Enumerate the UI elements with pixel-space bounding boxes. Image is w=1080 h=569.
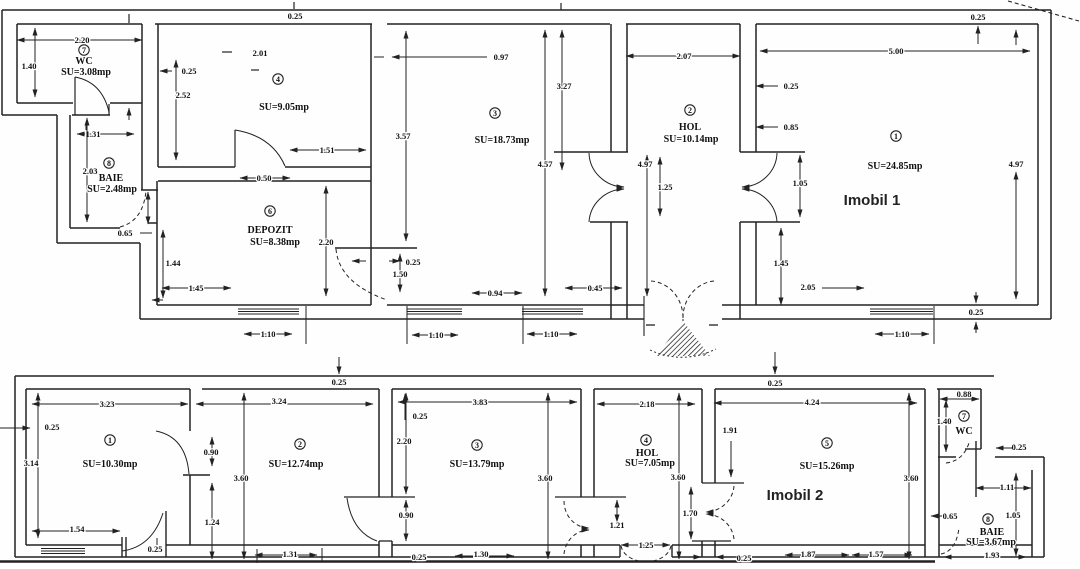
svg-text:3.23: 3.23	[100, 399, 115, 409]
svg-text:1.24: 1.24	[205, 517, 221, 527]
svg-text:1.93: 1.93	[985, 550, 1000, 560]
svg-text:1.50: 1.50	[393, 269, 408, 279]
svg-text:BAIE: BAIE	[99, 173, 124, 184]
svg-text:1.05: 1.05	[793, 178, 808, 188]
svg-text:7: 7	[82, 46, 86, 55]
svg-text:1.05: 1.05	[1006, 510, 1021, 520]
svg-text:0.88: 0.88	[957, 389, 972, 399]
svg-text:0.65: 0.65	[118, 228, 133, 238]
svg-text:3: 3	[475, 441, 479, 450]
svg-text:3.14: 3.14	[24, 458, 40, 468]
svg-text:7: 7	[962, 412, 966, 421]
svg-text:2.01: 2.01	[253, 48, 268, 58]
svg-text:1.54: 1.54	[70, 524, 86, 534]
svg-text:1.51: 1.51	[320, 145, 335, 155]
svg-text:1.45: 1.45	[189, 283, 204, 293]
svg-text:3: 3	[493, 109, 497, 118]
svg-text:0.25: 0.25	[971, 12, 986, 22]
svg-text:0.85: 0.85	[784, 122, 799, 132]
svg-text:Imobil 1: Imobil 1	[844, 192, 901, 209]
svg-text:5.00: 5.00	[889, 46, 904, 56]
svg-text:8: 8	[986, 515, 990, 524]
svg-text:3.60: 3.60	[538, 473, 553, 483]
svg-text:1.70: 1.70	[683, 508, 698, 518]
svg-text:3.60: 3.60	[234, 473, 249, 483]
svg-text:0.90: 0.90	[204, 447, 219, 457]
svg-text:2.05: 2.05	[801, 282, 816, 292]
svg-text:1.91: 1.91	[723, 425, 738, 435]
svg-text:0.94: 0.94	[488, 288, 504, 298]
svg-text:4.24: 4.24	[805, 397, 821, 407]
svg-text:6: 6	[268, 207, 272, 216]
svg-text:0.25: 0.25	[768, 378, 783, 388]
svg-text:4.57: 4.57	[538, 159, 554, 169]
svg-text:1.10: 1.10	[544, 329, 559, 339]
svg-text:SU=13.79mp: SU=13.79mp	[450, 459, 505, 470]
svg-text:SU=10.14mp: SU=10.14mp	[664, 134, 719, 145]
svg-text:SU=8.38mp: SU=8.38mp	[250, 237, 300, 248]
svg-text:0.25: 0.25	[288, 11, 303, 21]
svg-text:0.25: 0.25	[182, 66, 197, 76]
svg-text:1.31: 1.31	[283, 549, 298, 559]
svg-text:SU=10.30mp: SU=10.30mp	[83, 459, 138, 470]
svg-text:3.27: 3.27	[557, 81, 573, 91]
svg-text:1.11: 1.11	[1000, 482, 1014, 492]
svg-text:3.24: 3.24	[272, 396, 288, 406]
svg-text:1.25: 1.25	[639, 540, 654, 550]
svg-text:SU=12.74mp: SU=12.74mp	[269, 459, 324, 470]
svg-text:1.44: 1.44	[166, 258, 182, 268]
svg-text:0.25: 0.25	[148, 544, 163, 554]
svg-text:SU=3.08mp: SU=3.08mp	[61, 67, 111, 78]
svg-text:2.52: 2.52	[176, 90, 191, 100]
svg-text:1.31: 1.31	[86, 129, 101, 139]
svg-text:0.25: 0.25	[1012, 442, 1027, 452]
svg-text:SU=18.73mp: SU=18.73mp	[475, 135, 530, 146]
svg-text:3.60: 3.60	[904, 473, 919, 483]
svg-text:2.20: 2.20	[75, 35, 90, 45]
svg-text:1: 1	[894, 132, 898, 141]
svg-text:1.25: 1.25	[658, 182, 673, 192]
svg-text:0.50: 0.50	[257, 173, 272, 183]
svg-text:SU=2.48mp: SU=2.48mp	[87, 184, 137, 195]
svg-text:0.25: 0.25	[784, 81, 799, 91]
svg-text:SU=7.05mp: SU=7.05mp	[625, 458, 675, 469]
svg-text:1.30: 1.30	[474, 549, 489, 559]
svg-text:4.97: 4.97	[638, 159, 654, 169]
svg-text:0.25: 0.25	[406, 257, 421, 267]
svg-text:SU=24.85mp: SU=24.85mp	[868, 161, 923, 172]
svg-text:0.90: 0.90	[399, 510, 414, 520]
svg-text:2.07: 2.07	[677, 51, 693, 61]
svg-text:1.40: 1.40	[937, 416, 952, 426]
svg-text:1: 1	[108, 436, 112, 445]
svg-text:3.60: 3.60	[671, 472, 686, 482]
svg-text:1.57: 1.57	[869, 549, 885, 559]
svg-text:2: 2	[688, 106, 692, 115]
svg-text:SU=15.26mp: SU=15.26mp	[800, 461, 855, 472]
svg-text:2.20: 2.20	[319, 237, 334, 247]
svg-text:2: 2	[298, 440, 302, 449]
svg-text:0.25: 0.25	[45, 422, 60, 432]
svg-text:8: 8	[107, 159, 111, 168]
svg-text:WC: WC	[75, 56, 92, 67]
svg-text:0.45: 0.45	[588, 283, 603, 293]
svg-text:WC: WC	[955, 426, 972, 437]
svg-text:4: 4	[644, 436, 648, 445]
svg-text:1.87: 1.87	[801, 549, 817, 559]
svg-text:0.65: 0.65	[943, 511, 958, 521]
svg-text:0.25: 0.25	[969, 307, 984, 317]
svg-text:2.20: 2.20	[397, 436, 412, 446]
svg-text:3.57: 3.57	[396, 131, 412, 141]
svg-text:1.10: 1.10	[429, 330, 444, 340]
svg-text:DEPOZIT: DEPOZIT	[247, 225, 292, 236]
svg-text:0.25: 0.25	[332, 377, 347, 387]
svg-text:1.45: 1.45	[774, 258, 789, 268]
svg-text:HOL: HOL	[679, 122, 702, 133]
svg-text:1.10: 1.10	[895, 329, 910, 339]
svg-text:2.03: 2.03	[83, 166, 98, 176]
svg-text:SU=3.67mp: SU=3.67mp	[966, 537, 1016, 548]
svg-text:0.25: 0.25	[412, 552, 427, 562]
svg-text:3.83: 3.83	[473, 397, 488, 407]
svg-text:Imobil 2: Imobil 2	[767, 487, 824, 504]
svg-text:0.97: 0.97	[494, 52, 510, 62]
svg-text:1.21: 1.21	[610, 520, 625, 530]
svg-text:2.18: 2.18	[640, 399, 655, 409]
svg-text:0.25: 0.25	[737, 553, 752, 563]
svg-text:0.25: 0.25	[413, 411, 428, 421]
svg-text:1.10: 1.10	[261, 329, 276, 339]
svg-text:5: 5	[825, 439, 829, 448]
svg-text:1.40: 1.40	[22, 61, 37, 71]
svg-text:SU=9.05mp: SU=9.05mp	[259, 102, 309, 113]
svg-text:4: 4	[276, 75, 280, 84]
svg-text:4.97: 4.97	[1009, 159, 1025, 169]
